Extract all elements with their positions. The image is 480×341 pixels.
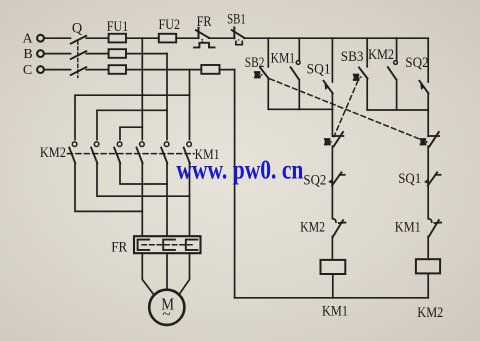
motor M [149,290,184,325]
svg-text:Q: Q [72,21,83,37]
svg-text:FR: FR [197,14,212,30]
node B [37,50,44,57]
svg-text:SQ2: SQ2 [303,172,326,188]
pushbutton SB1 (NC stop) [232,28,245,45]
svg-text:C: C [23,63,32,78]
wire coil KM2 to bottom bus [427,273,429,297]
wire phase A drop [141,38,143,139]
wire left parallel merge [268,108,332,110]
wire top control bus [244,37,428,39]
wire bottom control bus [235,297,429,299]
mechanical link SB2 to NC (dashed) [270,79,420,139]
pushbutton SB2 (NO part) [260,38,269,109]
svg-text:FR: FR [111,239,127,255]
wire col5 output down to FR [166,163,168,236]
switch Q linkage (dashed) [77,41,79,78]
contactor KM2 main contact 2 [91,142,99,163]
wire col1 output to col4 [75,163,142,211]
svg-text:SB1: SB1 [227,12,246,28]
svg-text:KM1: KM1 [395,220,421,236]
svg-text:SQ1: SQ1 [398,171,421,187]
FR heater element 3 [186,240,198,250]
fuse FU2 row A [159,34,176,43]
SB3 actuator E [354,72,362,82]
contactor KM1 main contact 3 [184,142,192,163]
svg-text:~: ~ [162,307,170,323]
wire left branch upper [331,109,333,136]
svg-text:A: A [22,31,33,46]
wire FR to SB1 [209,37,235,39]
fuse FU1 pole C [109,65,126,74]
wire left control rail [234,70,236,298]
switch Q blade pole C [71,67,86,75]
contactor KM2 aux NO contact [388,38,398,110]
switch Q blade pole A [71,36,86,44]
wire crossover bracket col2 to phase B [97,110,167,139]
switch Q blade pole B [71,51,86,59]
limit switch SQ2 (NO part) [419,38,428,110]
wire phase C drop [189,70,191,140]
pushbutton SB2 NC contact (interlock) [428,132,439,219]
wire row B FU1 to drop [126,53,167,55]
FR heater dashed link [142,244,193,246]
FR heater element 2 [163,240,175,250]
fuse FU2 pole 2 (control, row C) [201,65,219,74]
wire col4 output down to FR [141,163,143,236]
wire control fuse to left rail corner [220,69,235,71]
limit switch SQ1 (NO part) [324,38,333,109]
wire phase C to switch [44,69,70,71]
svg-text:E: E [325,137,331,147]
wire Q to FU1 row A [86,37,108,39]
svg-text:SQ2: SQ2 [405,55,429,71]
svg-text:FU2: FU2 [159,17,181,33]
fuse FU1 pole B [109,49,126,58]
svg-text:KM2: KM2 [300,219,325,235]
wire col6 output down to FR [189,163,191,236]
wire col3 output to col5 [120,163,167,184]
node A [37,35,44,42]
fuse FU1 pole A [109,34,126,43]
wire FR to motor middle [166,254,168,290]
contactor KM1 NC interlock contact [428,219,441,260]
contactor KM2 NC interlock contact [332,219,345,260]
wire right branch upper [427,110,429,136]
linkage dashed line through main contacts [68,153,195,155]
SB2 actuator E [255,70,263,80]
svg-text:KM2: KM2 [368,47,394,63]
SB2 NC actuator E [420,137,427,147]
coil KM2 [416,259,440,273]
wire coil KM1 to bottom bus [332,274,334,298]
wire FR to motor left [142,254,154,296]
svg-text:www. pw0. cn: www. pw0. cn [176,154,303,184]
wire col2 output to col6 [97,163,190,196]
svg-text:B: B [23,47,32,62]
svg-text:KM1: KM1 [271,50,295,66]
wire FU1 to FU2 row A [126,37,159,39]
svg-text:KM2: KM2 [40,145,66,161]
svg-text:SB2: SB2 [245,55,265,71]
svg-text:KM2: KM2 [417,305,443,321]
wire crossover bracket col3 to phase A [120,127,142,139]
wire FU2 to FR [176,37,198,39]
wire phase B drop [166,54,168,140]
contactor KM1 main contact 1 [137,142,145,163]
contactor KM2 main contact 3 [114,142,122,163]
contactor KM1 main contact 2 [161,142,169,163]
FR heater element 1 [138,240,150,250]
contactor KM1 aux NO contact [291,38,301,109]
wire phase A to switch [44,37,70,39]
wire FR to motor right [179,254,190,296]
svg-text:E: E [255,70,261,80]
thermal relay FR heater box [134,236,201,253]
svg-text:SB3: SB3 [341,49,364,65]
wire Q to FU1 row B [86,53,108,55]
wire Q to FU1 row C [86,69,108,71]
contactor KM2 main contact 1 [69,142,77,163]
wire row C FU1 to control fuse [126,69,201,71]
limit switch SQ1 NC contact [424,172,441,185]
mechanical link SB3 to NC (dashed) [334,81,358,137]
SB3 NC actuator E [325,137,332,147]
thermal relay contact FR (NC) [194,28,215,48]
limit switch SQ2 NC contact [328,172,345,185]
svg-text:SQ1: SQ1 [307,62,331,78]
pushbutton SB3 (NO part) [359,38,368,110]
node C [37,66,44,73]
wire right parallel merge [367,109,428,111]
coil KM1 [321,260,346,274]
svg-text:KM1: KM1 [322,304,348,320]
svg-text:FU1: FU1 [107,19,129,35]
pushbutton SB3 NC contact (interlock) [332,132,343,219]
wire phase B to switch [44,53,70,55]
wire crossover bracket col1 to phase C [75,95,190,139]
svg-text:E: E [420,137,426,147]
